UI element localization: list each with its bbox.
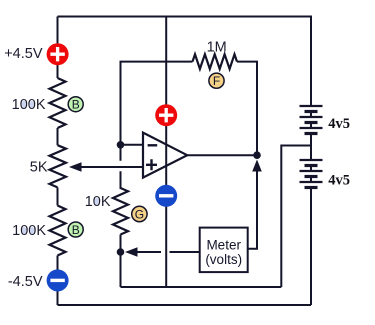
svg-text:B: B: [72, 98, 80, 112]
svg-text:F: F: [213, 74, 220, 88]
svg-text:Meter: Meter: [206, 238, 241, 253]
svg-text:100K: 100K: [12, 223, 46, 239]
zero counter highlights in value labels: [22, 101, 99, 234]
wire 0V bottom rail: [121, 286, 282, 288]
supply terminal V+ red circle at op-amp: [155, 104, 177, 126]
meter M1 box: [200, 228, 248, 273]
supply terminal +4.5V red circle: [47, 43, 69, 65]
label node B circle upper: [68, 97, 83, 112]
resistor R3 100K: [50, 206, 66, 256]
arrowhead pot wiper: [69, 162, 82, 172]
wire 0V riser to battery centre tap: [281, 146, 311, 288]
svg-text:(volts): (volts): [205, 252, 242, 267]
arrowhead meter lead to node D: [125, 247, 138, 257]
wire left rail upper lead: [57, 17, 59, 79]
label node B circle lower: [68, 222, 83, 237]
resistor R1 100K: [50, 78, 66, 128]
wire left rail lower lead to bottom: [57, 256, 59, 306]
resistor R5 1M: [193, 54, 238, 69]
svg-text:4v5: 4v5: [328, 173, 350, 189]
wire feedback loop top: [121, 62, 193, 145]
battery BT1 plates: [300, 106, 323, 134]
wire meter left lead segment A: [136, 251, 161, 253]
wire 10K bottom node down to 0V rail: [120, 235, 122, 288]
wire segment between pot and R3: [57, 187, 59, 205]
wire op-amp output: [187, 154, 257, 156]
wire meter right lead: [248, 168, 257, 249]
wire non-inverting input from pot wiper: [79, 166, 143, 168]
supply terminal -4.5V blue circle: [47, 269, 69, 291]
wire top rail: [58, 17, 312, 107]
battery BT2 plates: [300, 160, 323, 188]
label node G circle: [132, 206, 147, 221]
svg-text:4v5: 4v5: [328, 116, 350, 132]
node C junction dot output: [253, 151, 261, 159]
svg-text:5K: 5K: [30, 160, 48, 176]
node A junction dot inverting input: [117, 141, 125, 149]
svg-text:100K: 100K: [12, 97, 46, 113]
arrowhead meter lead to output node: [252, 160, 262, 172]
wire battery bottom lead: [310, 188, 312, 306]
node D junction dot 10K bottom: [117, 248, 125, 256]
wire inverting input: [121, 144, 143, 146]
svg-text:G: G: [135, 207, 144, 221]
wire 1M right lead down to output node: [237, 62, 257, 156]
wire feedback column down to 10K: [120, 145, 122, 189]
wire segment between R1 and pot: [57, 128, 59, 145]
wire meter left lead segment B: [170, 251, 200, 253]
wire op-amp supply rail vertical: [165, 17, 167, 288]
op-amp U1 plus input symbol: [146, 159, 157, 170]
svg-text:-4.5V: -4.5V: [8, 274, 43, 290]
op-amp U1 minus input symbol: [148, 144, 158, 146]
svg-text:1M: 1M: [207, 40, 227, 56]
label node F circle: [209, 73, 224, 88]
op-amp U1: [143, 133, 187, 178]
wire battery column between cells and bottom lead: [310, 134, 312, 161]
potentiometer VR1 5K: [50, 145, 67, 187]
svg-text:B: B: [72, 223, 80, 237]
supply terminal V- blue circle at op-amp: [155, 185, 177, 207]
resistor R4 10K: [113, 188, 128, 235]
wire bottom rail: [58, 304, 312, 306]
svg-text:+4.5V: +4.5V: [4, 46, 43, 62]
